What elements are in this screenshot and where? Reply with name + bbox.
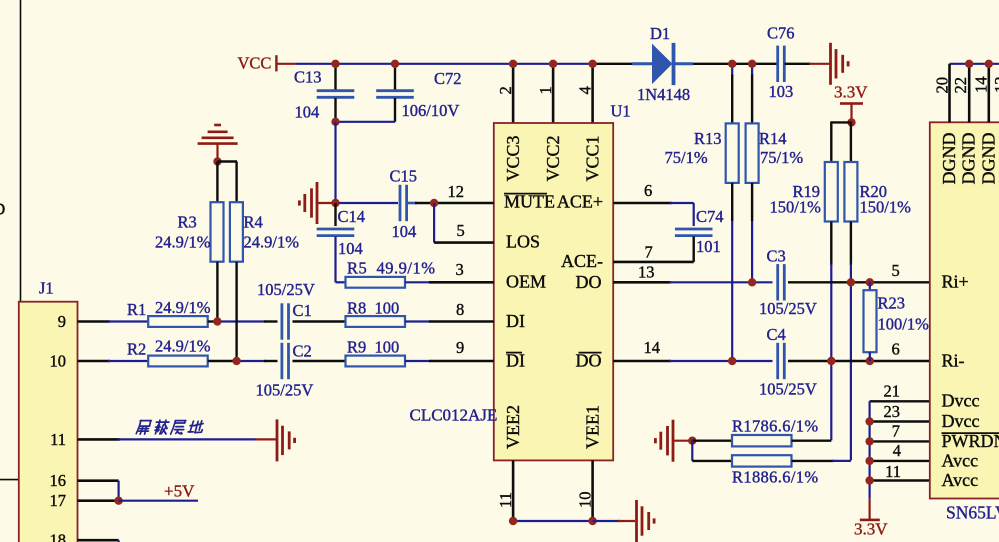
resistor R4: [230, 202, 243, 262]
pin R19 bottom: [830, 222, 832, 266]
pin R14 bottom: [751, 183, 753, 221]
pin 7 wire right IC: [870, 440, 930, 442]
wire DO to C3: [669, 281, 773, 283]
svg-text:22: 22: [951, 77, 970, 94]
svg-text:104: 104: [392, 222, 417, 241]
resistor R18: [732, 455, 792, 466]
resistor R5: [346, 277, 406, 288]
wire VEE rail: [513, 520, 593, 522]
resistor R9: [346, 356, 406, 367]
ground shield: [277, 419, 295, 461]
ground at C14 node: [299, 182, 317, 224]
junction VEE1: [588, 517, 596, 525]
junction pin10/R2/R4: [232, 357, 240, 365]
wire right IC rail: [950, 63, 999, 65]
wire C1 to R8: [293, 320, 346, 322]
svg-text:C13: C13: [294, 68, 322, 87]
resistor R14: [746, 123, 759, 182]
svg-text:VEE1: VEE1: [583, 405, 603, 449]
svg-text:R5 49.9/1%: R5 49.9/1%: [347, 259, 435, 278]
junction R19/Ri-: [827, 357, 835, 365]
svg-text:DO: DO: [576, 272, 602, 292]
svg-text:3.3V: 3.3V: [854, 520, 888, 539]
svg-text:Dvcc: Dvcc: [942, 391, 980, 411]
wire red gnd R17: [673, 440, 691, 442]
junction ladder 7: [865, 437, 873, 445]
svg-text:4: 4: [575, 86, 594, 94]
ground top right: [831, 43, 849, 85]
wire to R5: [336, 281, 346, 283]
J1 pin 18 wire: [78, 539, 119, 542]
pin R13 top: [731, 75, 733, 124]
wire red to gnd: [255, 438, 276, 440]
wire VCC to R13: [731, 64, 733, 76]
pin 8 wire: [429, 320, 494, 323]
svg-text:16: 16: [50, 471, 67, 490]
svg-text:Ri-: Ri-: [942, 350, 965, 370]
pin 10 wire U1: [591, 460, 594, 521]
ground U1 VEE: [637, 500, 655, 542]
pin 4 wire right IC: [870, 460, 930, 462]
ground above R3/R4 (earth bars): [198, 125, 238, 144]
junction VCC R14: [748, 60, 756, 68]
J1 pin 11 wire: [78, 438, 121, 441]
wire R23 to Ri-: [869, 352, 871, 361]
svg-text:4: 4: [893, 441, 901, 460]
pin 20 wire: [948, 64, 951, 123]
junction R23 top: [866, 278, 874, 286]
pin 9 wire: [429, 360, 494, 363]
wire to D1 anode: [594, 63, 635, 65]
wire R19 to Ri- and R17: [830, 264, 832, 441]
wire R17 to riser: [792, 440, 832, 442]
svg-text:VCC2: VCC2: [543, 135, 563, 181]
wire to R1: [108, 320, 148, 322]
junction 3.3V node: [847, 118, 855, 126]
junction ladder 4: [865, 457, 873, 465]
wire to R4 top: [218, 160, 238, 162]
wire +5V net: [119, 500, 198, 502]
svg-text:R14: R14: [759, 129, 787, 148]
wire into C1: [264, 320, 278, 322]
svg-text:Avcc: Avcc: [942, 470, 979, 490]
wire Ri+ to R23: [869, 282, 871, 290]
wire C13 node down to gnd node: [334, 122, 336, 203]
wire R4 to pin10 node: [235, 262, 237, 361]
svg-text:24.9/1%: 24.9/1%: [244, 233, 300, 252]
junction R14/DO: [748, 278, 756, 286]
svg-text:103: 103: [769, 82, 794, 101]
diode D1: [632, 43, 693, 85]
wire R5 out: [405, 281, 430, 283]
svg-text:150/1%: 150/1%: [860, 198, 912, 217]
svg-text:LOS: LOS: [506, 232, 540, 252]
svg-text:C15: C15: [390, 167, 418, 186]
wire node to C2: [237, 360, 266, 362]
wire shield ground: [118, 438, 256, 440]
junction gnd R17/R18: [688, 437, 696, 445]
svg-text:J1: J1: [39, 279, 54, 298]
svg-text:R3: R3: [178, 213, 197, 232]
svg-text:R13: R13: [694, 129, 722, 148]
IC U2 SN65LV body: [930, 122, 999, 498]
junction rail 22: [965, 60, 973, 68]
svg-text:VCC3: VCC3: [503, 135, 523, 181]
wire VEE to gnd: [593, 520, 620, 522]
capacitor C74: [675, 229, 713, 236]
svg-text:+5V: +5V: [164, 482, 195, 501]
svg-text:U1: U1: [611, 102, 631, 121]
resistor R1: [148, 316, 208, 327]
junction ladder 11: [865, 476, 873, 484]
svg-text:105/25V: 105/25V: [759, 299, 817, 318]
wire down to R19: [830, 121, 832, 162]
svg-text:C4: C4: [767, 325, 786, 344]
wire C4 to Ri-: [788, 360, 930, 362]
svg-text:Ri+: Ri+: [942, 272, 969, 292]
svg-text:14: 14: [644, 338, 661, 357]
wire C76 to gnd: [785, 63, 811, 65]
svg-text:CLC012AJE: CLC012AJE: [410, 405, 498, 424]
wire C15 to node: [415, 202, 434, 204]
svg-text:DI: DI: [506, 311, 525, 331]
wire C74 down: [693, 203, 695, 226]
wire R20 to Ri+ and R18: [850, 264, 852, 461]
wire C15 blue stub: [408, 202, 417, 205]
svg-text:C3: C3: [767, 247, 786, 266]
junction ladder 23: [865, 417, 873, 425]
svg-text:101: 101: [696, 237, 721, 256]
junction VCC pin1: [549, 60, 557, 68]
wire C3 to Ri+: [788, 281, 930, 283]
capacitor C76: [778, 46, 785, 82]
wire VCC to R14: [751, 64, 753, 76]
pin 13 wire: [613, 281, 671, 284]
pin 3 wire: [429, 281, 494, 284]
wire R13 to DObar row: [731, 221, 733, 361]
wire ladder vertical: [868, 401, 870, 498]
svg-text:VCC: VCC: [238, 53, 272, 72]
wire gnd to R4: [235, 162, 237, 203]
wire R18 to riser: [832, 460, 851, 462]
wire gnd red stub: [317, 202, 334, 204]
resistor R8: [346, 316, 406, 327]
svg-text:104: 104: [295, 102, 320, 121]
svg-text:6: 6: [644, 181, 652, 200]
J1 pin 16 wire: [78, 479, 119, 482]
svg-text:12: 12: [448, 182, 465, 201]
svg-text:1: 1: [536, 86, 555, 94]
pin 23 wire: [870, 420, 930, 422]
wire R8 out: [405, 320, 430, 322]
pin 2 wire U1: [512, 64, 515, 123]
svg-text:75/1%: 75/1%: [665, 148, 708, 167]
svg-text:9: 9: [58, 312, 66, 331]
junction VCC C72: [391, 60, 399, 68]
pin 14 wire right IC: [987, 64, 990, 123]
pin 7 wire: [613, 261, 694, 264]
resistor R23: [864, 290, 877, 352]
svg-text:10: 10: [50, 352, 67, 371]
wire C13 to node: [334, 98, 336, 122]
resistor R19: [825, 162, 838, 222]
junction R20/Ri+: [847, 278, 855, 286]
junction R13/DObar: [728, 357, 736, 365]
svg-text:SN65LVD: SN65LVD: [946, 503, 999, 523]
svg-text:Dvcc: Dvcc: [942, 411, 980, 431]
svg-text:14: 14: [972, 77, 991, 94]
svg-text:1N4148: 1N4148: [637, 85, 690, 104]
svg-text:24.9/1%: 24.9/1%: [155, 298, 211, 317]
svg-text:9: 9: [456, 338, 464, 357]
junction pin12/pin5: [430, 199, 438, 207]
svg-text:6: 6: [892, 340, 900, 359]
svg-text:105/25V: 105/25V: [759, 379, 817, 398]
wire gnd to R18: [692, 460, 732, 462]
resistor R2: [148, 356, 208, 367]
capacitor C4: [778, 343, 785, 379]
junction gnd/C14/C15: [331, 199, 339, 207]
wire gnd to R17: [692, 440, 732, 442]
svg-text:17: 17: [50, 491, 67, 510]
wire node down to pin5: [433, 203, 435, 243]
junction VCC pin4: [588, 60, 596, 68]
wire into C2: [264, 360, 278, 362]
wire C72 down: [394, 98, 396, 122]
svg-text:VCC1: VCC1: [583, 135, 603, 181]
svg-text:7: 7: [645, 243, 653, 262]
svg-text:3.3V: 3.3V: [834, 83, 868, 102]
wire VCC rail: [296, 63, 594, 65]
wire DObar to C4: [669, 360, 773, 362]
wire gnd to R3: [216, 162, 218, 203]
svg-text:R9 100: R9 100: [347, 338, 399, 357]
J1 pin 9 wire: [78, 320, 111, 323]
pin 11 wire U1: [512, 460, 515, 521]
resistor R3: [211, 202, 224, 262]
junction R23 bottom: [866, 357, 874, 365]
svg-text:3: 3: [456, 260, 464, 279]
J1 pin 10 wire: [78, 360, 111, 363]
capacitor C3: [778, 264, 785, 300]
capacitor C72: [376, 91, 414, 98]
svg-text:R1: R1: [127, 300, 146, 319]
ground R17/R18: [655, 420, 673, 462]
svg-text:R2: R2: [127, 340, 146, 359]
op-amp U1 CLC012AJE body: [494, 123, 613, 460]
junction VCC C13: [331, 60, 339, 68]
svg-text:Avcc: Avcc: [942, 450, 979, 470]
wire gnd stem: [216, 144, 218, 162]
capacitor C13: [317, 91, 355, 98]
pin 4 wire U1: [591, 64, 594, 123]
capacitor C1: [282, 303, 289, 339]
sheet border line: [20, 0, 22, 302]
svg-text:C76: C76: [767, 23, 795, 42]
pin 14 wire: [613, 360, 671, 363]
pin 12 wire: [434, 202, 494, 205]
svg-text:105/25V: 105/25V: [256, 381, 314, 400]
connector J1 body: [19, 302, 78, 542]
wire to C74: [670, 202, 694, 204]
svg-text:23: 23: [884, 402, 901, 421]
svg-text:20: 20: [932, 77, 951, 94]
svg-text:VEE2: VEE2: [503, 405, 523, 449]
pin R14 top: [751, 75, 753, 124]
svg-text:R1786.6/1%: R1786.6/1%: [732, 417, 818, 436]
wire 3.3V node to R19 branch: [831, 121, 851, 123]
svg-text:C14: C14: [338, 207, 366, 226]
wire C14 to R5 row: [334, 237, 336, 283]
pin 22 wire: [968, 64, 971, 123]
svg-text:R4: R4: [244, 213, 263, 232]
capacitor C2: [282, 343, 289, 379]
svg-text:5: 5: [892, 261, 900, 280]
wire to R2: [108, 360, 148, 362]
wire 16 to 17: [117, 481, 119, 501]
svg-text:12: 12: [991, 77, 999, 94]
junction R3/R4 top: [213, 157, 221, 165]
svg-text:75/1%: 75/1%: [760, 148, 803, 167]
pin 6 wire: [613, 202, 672, 205]
wire R14 to DO row: [751, 221, 753, 282]
svg-text:24.9/1%: 24.9/1%: [155, 337, 211, 356]
svg-text:DGND: DGND: [939, 133, 959, 185]
svg-text:DGND: DGND: [959, 133, 979, 185]
wire R9 out: [405, 360, 430, 362]
junction pin16/17: [114, 497, 122, 505]
wire node to C14: [334, 203, 336, 226]
pin R13 bottom: [731, 183, 733, 221]
wire gnd down to R18: [691, 441, 693, 461]
wire gnd node to C15: [336, 202, 399, 204]
svg-text:ACE+: ACE+: [557, 191, 603, 211]
capacitor C14: [317, 229, 355, 236]
wire pin18 down: [117, 540, 119, 542]
wire VCC to C13: [334, 64, 336, 90]
resistor R20: [844, 162, 857, 222]
svg-text:R23: R23: [878, 294, 906, 313]
wire red to gnd bottom: [618, 520, 635, 522]
wire D1 cathode to C76: [693, 63, 777, 65]
svg-text:150/1%: 150/1%: [770, 198, 822, 217]
svg-text:OEM: OEM: [506, 272, 546, 292]
pin 1 wire U1: [552, 64, 555, 123]
svg-text:11: 11: [496, 492, 515, 508]
wire node to C1: [217, 320, 266, 322]
svg-text:2: 2: [496, 86, 515, 94]
svg-text:5: 5: [457, 221, 465, 240]
wire C74 to pin7: [693, 237, 695, 262]
wire VCC to C72: [394, 64, 396, 90]
svg-text:C72: C72: [434, 69, 462, 88]
wire R3 to pin9 node: [216, 262, 218, 322]
svg-text:7: 7: [892, 422, 900, 441]
junction VEE2: [509, 517, 517, 525]
sheet zone tick: [0, 479, 20, 481]
junction rail 14: [985, 60, 993, 68]
wire C72 to C13 node: [334, 121, 395, 123]
J1 pin 17 wire: [78, 499, 119, 502]
svg-text:ACE-: ACE-: [561, 251, 603, 271]
svg-text:11: 11: [50, 430, 66, 449]
svg-text:100/1%: 100/1%: [878, 314, 930, 333]
wire R18 out: [792, 460, 835, 462]
junction pin9/R1/R3: [213, 317, 221, 325]
svg-text:24.9/1%: 24.9/1%: [155, 233, 211, 252]
svg-text:8: 8: [456, 300, 464, 319]
wire R1 to node: [208, 320, 218, 322]
junction VCC R13: [728, 60, 736, 68]
junction C13/C72: [331, 118, 339, 126]
svg-text:105/25V: 105/25V: [257, 280, 315, 299]
wire C2 to R9: [293, 360, 346, 362]
svg-text:C74: C74: [696, 207, 724, 226]
svg-text:R1886.6/1%: R1886.6/1%: [732, 468, 818, 487]
svg-text:21: 21: [884, 381, 901, 400]
wire R2 to node: [208, 360, 237, 362]
resistor R17: [732, 435, 792, 446]
svg-text:C1: C1: [293, 301, 312, 320]
label shield ground chinese (drawn strokes): [136, 421, 151, 435]
pin R20 bottom: [850, 222, 852, 266]
resistor R13: [726, 123, 739, 182]
wire 3.3V to R20: [850, 122, 852, 162]
svg-text:D1: D1: [650, 24, 670, 43]
power port 3.3V bottom: [868, 498, 870, 519]
pin 11 wire right IC: [870, 479, 930, 481]
svg-text:10: 10: [575, 492, 594, 509]
capacitor C15: [400, 185, 407, 221]
svg-text:13: 13: [638, 263, 655, 282]
pin 5 wire: [434, 241, 494, 244]
svg-text:104: 104: [338, 239, 363, 258]
wire gnd red: [809, 63, 830, 65]
junction VCC pin2: [509, 60, 517, 68]
pin 21 wire: [870, 400, 930, 402]
svg-text:18: 18: [50, 531, 67, 542]
svg-text:106/10V: 106/10V: [402, 101, 460, 120]
svg-text:11: 11: [885, 462, 901, 481]
svg-text:D: D: [0, 200, 5, 219]
svg-text:C2: C2: [293, 342, 312, 361]
svg-text:R8 100: R8 100: [347, 299, 399, 318]
svg-text:DGND: DGND: [978, 133, 998, 185]
